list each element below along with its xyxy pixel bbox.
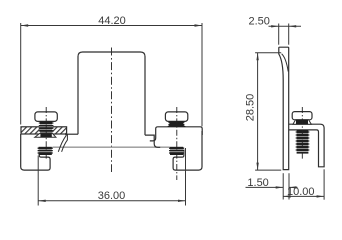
right flange plate [156,127,203,138]
dimension 1.50 line [246,186,298,188]
right nut thread gaps [170,149,184,151]
side screw stud thread gaps [296,134,309,152]
extension line right (2.50) [288,24,290,45]
slot bottom left [67,133,78,135]
left nut [39,147,52,155]
extension line left (2.50) [278,24,280,45]
left screw threaded shank [40,121,52,133]
svg-text:2.50: 2.50 [249,15,270,27]
central block [78,52,145,135]
extension line right (10.00) [323,169,325,199]
dimension 44.20 line [21,25,202,27]
dimension 36.00 line [38,200,185,202]
right nut ribs [169,148,184,153]
dimension 28.50 bottom arrow [256,163,258,171]
channel bridge and right leg [289,124,324,167]
side screw centerline [301,107,303,160]
left screw thread gaps [39,124,52,132]
rail top line (gray) [53,146,170,148]
extension line right (44.20) [201,23,203,126]
left screw head [35,112,57,122]
left screw centerline [45,107,47,160]
right flange left step [150,138,156,141]
dimension 2.50 line [269,25,302,27]
extension line bottom (28.50) [255,169,281,171]
dimension 44.20 right arrow [195,24,203,26]
dimension 28.50 top arrow [256,53,258,61]
left outer wall and foot [21,134,50,170]
dimension 28.50 line [257,53,259,170]
slot bottom right step [145,135,160,147]
side screw stud ribs [296,132,310,150]
extension line left (36.00) [37,156,39,206]
right screw centerline [176,107,178,180]
side screw washer core [296,120,308,124]
left spring arc [58,135,66,152]
side screw stud [297,130,309,154]
dimension 2.50 left arrow [271,25,279,27]
extension line top (28.50) [255,52,281,54]
side screw head [292,112,312,120]
left nut ribs [38,148,53,153]
right screw head [165,112,187,122]
side screw washer [293,120,311,124]
left band corner edge [66,134,68,140]
left screw thread ribs [39,123,54,131]
right screw threaded collar [169,121,183,127]
extension line left (1.50) [282,173,284,199]
dimension 10.00 left arrow [283,195,291,197]
dimension 10.00 line [283,195,324,197]
right screw collar ribs [168,122,184,124]
dimension 44.20 left arrow [21,24,29,26]
svg-text:28.50: 28.50 [245,94,257,122]
dimension 1.50 right arrow [289,186,297,188]
left screw flare washer [35,133,56,137]
dimension 36.00 right arrow [178,200,186,202]
extension line left (44.20) [20,23,22,125]
side wall profile [279,47,289,169]
left screw flare core [40,133,51,137]
left spring arc inner [62,140,68,152]
dimension 2.50 right arrow [289,25,297,27]
right screw flare washer [167,125,186,127]
right nut [170,147,183,155]
wall fold line [282,54,289,72]
extension line right (1.50) [288,173,290,199]
dimension 36.00 left arrow [38,200,46,202]
dimension 10.00 right arrow [317,195,325,197]
main centerline [111,48,113,173]
left flange section (hatched) [21,127,67,134]
right outer wall and foot [173,131,202,170]
extension line right (36.00) [185,148,187,206]
left nut thread gaps [38,149,52,151]
dimension 1.50 left arrow [276,186,284,188]
